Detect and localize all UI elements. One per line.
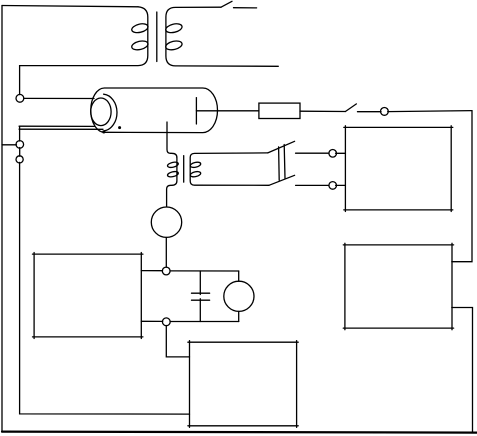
node A terminal circle [16, 94, 24, 102]
wire: filament lead lower [19, 128, 103, 130]
wire: switch S1 right segment [234, 7, 257, 9]
transformer T2 secondary winding [190, 153, 269, 185]
node E terminal circle [329, 182, 337, 190]
node F1 terminal circle [16, 141, 24, 149]
node G terminal circle [162, 318, 170, 326]
wire: bottom border [2, 432, 477, 433]
connector P1 top blade [268, 141, 295, 153]
wire: F2 down left rail [20, 162, 190, 414]
transformer T1 primary winding [20, 7, 149, 95]
block U1 upper right box [344, 126, 453, 212]
transformer T2 core [183, 156, 185, 182]
wire: node G to meter bottom [170, 321, 239, 323]
thermal cutout TC1 circle [151, 207, 181, 237]
wire: magnetron bottom lead to T2 [167, 122, 177, 158]
capacitor C1 top lead [199, 271, 201, 295]
wire: top border to transformer [2, 6, 138, 7]
wire: anode to resistor R1 [196, 110, 259, 112]
block U2 middle right box [343, 243, 453, 329]
node C terminal circle [162, 267, 170, 275]
wire: filament lead upper [19, 125, 95, 127]
wire: node E to box U1 [336, 184, 346, 186]
wire: P1 bottom to node E [296, 184, 329, 186]
connector P1 bottom blade [269, 175, 295, 185]
wire: U3 to node C [141, 270, 162, 272]
meter M1 top lead [238, 271, 240, 281]
transformer T1 secondary winding [165, 7, 278, 66]
magnetron V1 inner cap arc [104, 94, 117, 131]
meter M1 bottom lead [238, 311, 240, 321]
magnetron V1 dot [118, 126, 121, 129]
transformer T1 core [156, 12, 158, 62]
wire: node G drop to box U4 [166, 326, 189, 357]
wire: border tick to node F1 [2, 144, 16, 146]
block U4 bottom box [188, 341, 298, 428]
wire: node C to cap and meter [170, 270, 239, 272]
wire: R1 to switch S2 [300, 110, 345, 112]
wire: P1 top to node D [296, 152, 329, 154]
wire: right rail lower [452, 308, 473, 432]
wire: node B to right rail [388, 111, 472, 112]
node D terminal circle [329, 150, 337, 158]
magnetron V1 envelope [91, 88, 218, 133]
wire: F1 to F2 [19, 148, 21, 157]
meter M1 circle [224, 281, 254, 311]
magnetron V1 cap junction dot [102, 130, 105, 133]
transformer T2 primary winding [167, 158, 179, 207]
switch S2 blade [345, 104, 356, 112]
capacitor C1 bottom lead [199, 299, 201, 322]
wire: filament drop to node F1 [19, 126, 21, 141]
block U3 left box [33, 253, 143, 339]
magnetron V1 anode plate [195, 98, 197, 124]
magnetron V1 cathode ellipse [91, 98, 111, 126]
wire: right rail upper [452, 111, 472, 262]
switch S1 blade [221, 1, 232, 7]
node F2 terminal circle [16, 156, 23, 163]
resistor R1 [259, 103, 300, 118]
connector P1 bar 1 [278, 147, 281, 180]
connector P1 bar 2 [283, 145, 286, 179]
wire: left border vertical [1, 6, 3, 433]
node B terminal circle [381, 108, 389, 116]
wire: U3 to node G [141, 320, 162, 322]
wire: S2 to node B [358, 111, 382, 113]
wire: node A to magnetron cathode [24, 97, 94, 99]
wire: TC1 to node C [165, 237, 167, 267]
capacitor C1 plates [192, 293, 210, 300]
wire: node D to box U1 [336, 152, 346, 154]
